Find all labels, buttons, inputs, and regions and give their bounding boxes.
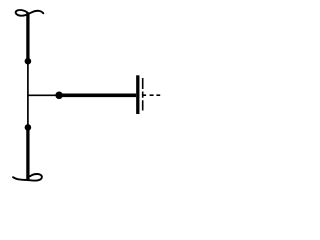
junction dot (feed line) — [55, 92, 63, 100]
wire: top thick vertical segment — [26, 13, 29, 61]
junction dot (bottom) — [25, 124, 32, 131]
wire: thick horizontal segment — [59, 93, 136, 97]
dashed boundary line (vertical) — [142, 78, 144, 111]
top curl terminal — [16, 10, 44, 16]
wire: thin horizontal feed segment — [28, 94, 59, 96]
junction dot (top) — [25, 58, 32, 65]
wire: bottom thick vertical segment — [26, 127, 29, 179]
electrode plate bar — [136, 75, 139, 114]
dashed continuation line (horizontal) — [143, 94, 161, 96]
bottom curl terminal — [13, 174, 42, 181]
wire: thin middle vertical segment — [27, 61, 29, 127]
